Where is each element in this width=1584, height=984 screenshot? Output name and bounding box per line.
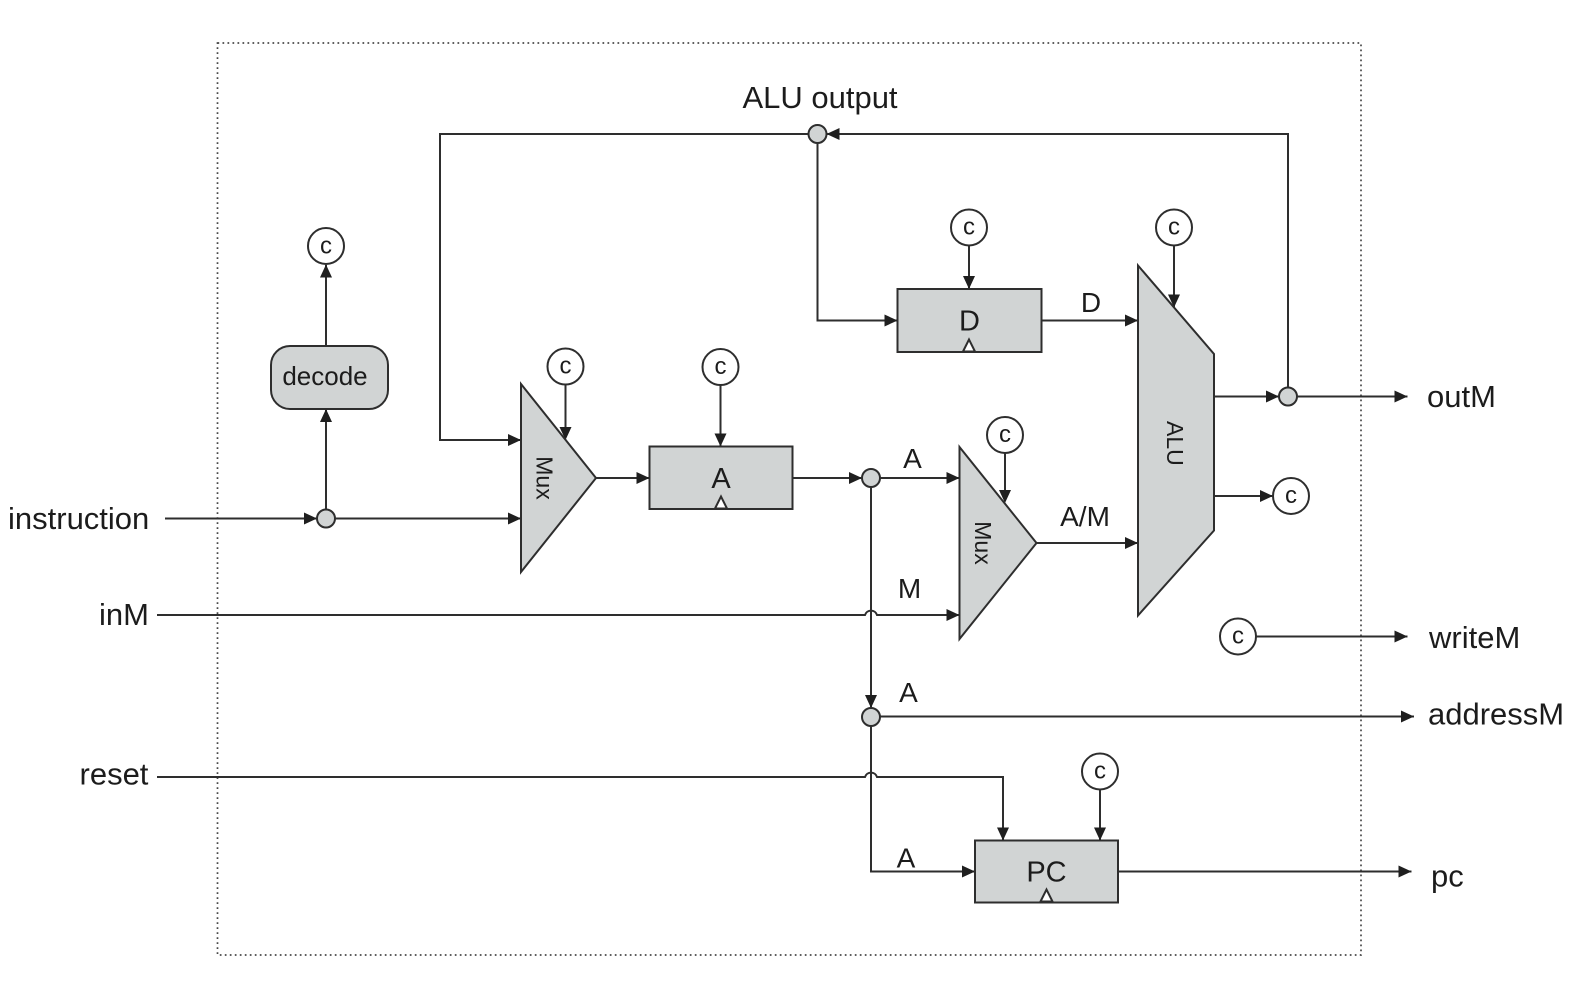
svg-text:A: A	[903, 443, 922, 474]
svg-text:ALU: ALU	[1162, 421, 1188, 466]
svg-text:A: A	[899, 677, 918, 708]
svg-text:decode: decode	[282, 361, 367, 391]
svg-text:c: c	[1285, 482, 1297, 509]
svg-text:c: c	[963, 214, 975, 241]
svg-text:PC: PC	[1026, 857, 1066, 889]
svg-text:instruction: instruction	[8, 501, 149, 536]
svg-text:D: D	[959, 306, 980, 338]
svg-text:reset: reset	[80, 757, 149, 792]
svg-text:Mux: Mux	[970, 521, 996, 565]
svg-text:c: c	[320, 233, 332, 260]
svg-text:pc: pc	[1431, 859, 1464, 894]
svg-text:c: c	[999, 421, 1011, 448]
svg-text:inM: inM	[99, 597, 149, 632]
svg-text:D: D	[1081, 287, 1101, 318]
svg-text:addressM: addressM	[1428, 697, 1564, 732]
svg-text:c: c	[1094, 758, 1106, 785]
svg-text:writeM: writeM	[1428, 620, 1520, 655]
svg-text:A/M: A/M	[1060, 501, 1110, 532]
svg-text:Mux: Mux	[532, 456, 558, 500]
svg-text:c: c	[1232, 623, 1244, 650]
svg-text:A: A	[711, 463, 731, 495]
svg-text:ALU output: ALU output	[742, 80, 897, 115]
svg-text:M: M	[898, 573, 921, 604]
svg-text:A: A	[897, 843, 916, 874]
svg-text:c: c	[715, 353, 727, 380]
svg-text:outM: outM	[1427, 379, 1496, 414]
svg-text:c: c	[1168, 214, 1180, 241]
svg-text:c: c	[560, 353, 572, 380]
